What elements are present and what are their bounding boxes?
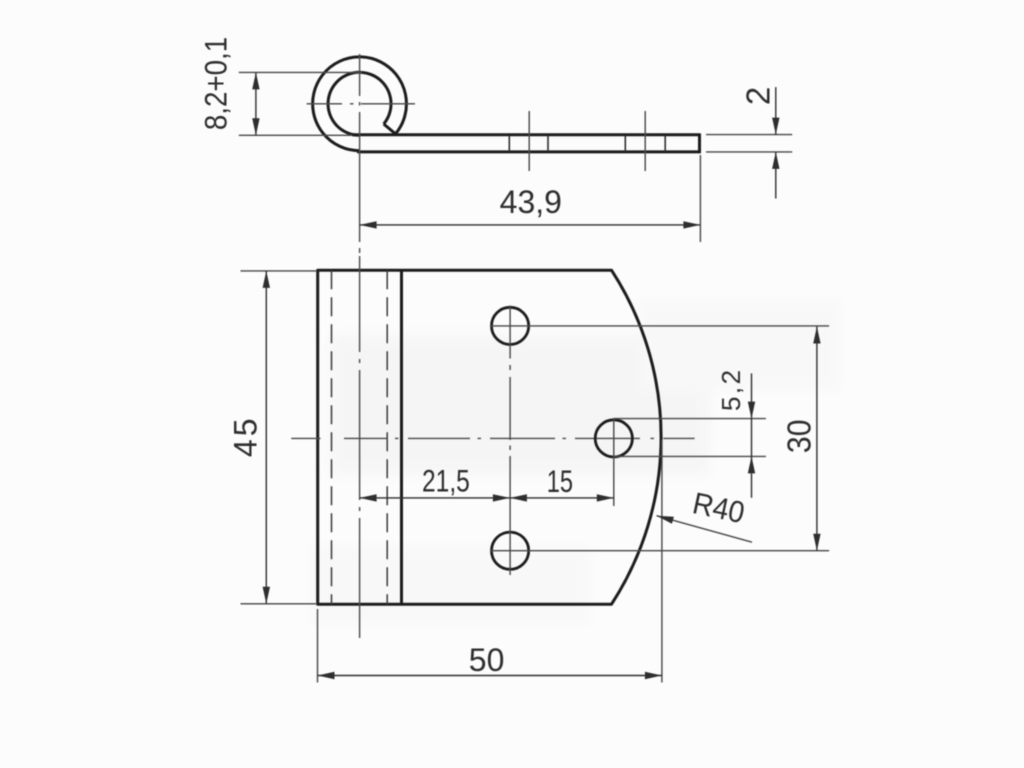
- dim 45 top extension: [241, 270, 317, 272]
- dim 5,2 middle segment: [751, 419, 753, 457]
- curl outer arc: [313, 57, 407, 151]
- plan vertical centerline: [359, 256, 361, 638]
- dim 50 right extension: [661, 440, 663, 683]
- svg-text:45: 45: [228, 416, 264, 458]
- dim 45 dimension line: [265, 271, 267, 604]
- dim 30 arrow up: [813, 327, 820, 344]
- top hole horizontal centerline / 30 extension: [490, 325, 829, 327]
- dim 21,5 arrow right: [493, 494, 510, 501]
- dim 2 upper arrow (down): [772, 118, 779, 135]
- svg-text:21,5: 21,5: [422, 463, 470, 499]
- dim 50 arrow right: [645, 672, 662, 679]
- dim 50 dimension line: [318, 675, 662, 677]
- dim 43,9 right extension line: [699, 155, 701, 242]
- curl vertical centerline: [359, 54, 361, 253]
- plate top edge (side view): [352, 133, 700, 136]
- hole centerline tick 2 (side view): [644, 111, 646, 171]
- dim 2 lower stem: [775, 152, 777, 199]
- svg-text:8,2+0,1: 8,2+0,1: [199, 37, 234, 130]
- dim 8,2+0,1 arrow up: [252, 72, 259, 89]
- curl horizontal centerline: [307, 103, 415, 105]
- plate bottom edge (side view): [357, 150, 700, 153]
- hole edge mark (side view, hole2 left): [624, 136, 626, 152]
- dim 5,2 lower stem: [751, 456, 753, 497]
- dim 8,2+0,1 bottom extension line: [239, 134, 352, 136]
- dim 5,2 upper arrow (down): [748, 402, 755, 419]
- svg-text:2: 2: [739, 87, 776, 105]
- dim 2 upper stem: [775, 87, 777, 135]
- dim 5,2 top extension: [614, 418, 766, 420]
- curl band hidden line right (dashed): [386, 270, 388, 604]
- dim 43,9 dimension line: [360, 224, 701, 226]
- R40 leader line: [657, 516, 753, 543]
- dim 50 left extension: [317, 609, 319, 683]
- svg-text:30: 30: [780, 420, 818, 454]
- svg-text:5,2: 5,2: [716, 367, 746, 411]
- dim 8,2+0,1 dimension line: [255, 72, 257, 135]
- dim 8,2+0,1 arrow down: [252, 118, 259, 135]
- hole centerline tick 1 (side view): [528, 111, 530, 171]
- faint scan blotches: [310, 300, 840, 625]
- dim 45 arrow up: [263, 271, 270, 288]
- dim 8,2+0,1 top extension line: [239, 71, 362, 73]
- dim 45 arrow down: [263, 587, 270, 604]
- R40 leader arrowhead: [657, 516, 674, 524]
- svg-text:50: 50: [469, 642, 505, 678]
- dim 5,2 bottom extension: [614, 455, 766, 457]
- curl band hidden line left (dashed): [331, 270, 333, 604]
- holes vertical centerline: [509, 306, 511, 576]
- dim 50 arrow left: [318, 672, 335, 679]
- dim 2 lower arrow (up): [772, 152, 779, 169]
- bottom hole horizontal centerline / 30 extension: [490, 550, 829, 552]
- dim 15 arrow left: [510, 494, 527, 501]
- dim 43,9 arrow right: [683, 221, 700, 228]
- dim 43,9 arrow left: [360, 221, 377, 228]
- curl band solid edge: [400, 270, 403, 604]
- svg-text:43,9: 43,9: [500, 184, 562, 220]
- hole edge mark (side view, hole1 left): [508, 136, 510, 152]
- dim 2 bottom extension line: [706, 151, 792, 153]
- plate outline with R40 arc: [318, 270, 661, 604]
- hole right: [595, 420, 632, 457]
- hole top: [492, 307, 529, 344]
- hole edge mark (side view, hole2 right): [664, 136, 666, 152]
- dim 30 dimension line: [816, 327, 818, 551]
- dim 45 bottom extension: [241, 603, 317, 605]
- plan horizontal centerline: [291, 437, 694, 439]
- hole edge mark (side view, hole1 right): [547, 136, 549, 152]
- dim 5,2 lower arrow (up): [748, 456, 755, 473]
- dim 15 arrow right: [597, 494, 614, 501]
- plate right end edge: [698, 133, 701, 153]
- dim 21,5 arrow left: [360, 494, 377, 501]
- dim 21,5 / 15 dimension line: [360, 497, 614, 499]
- dim 5,2 upper stem: [751, 373, 753, 418]
- right hole vertical centerline / 15 extension: [613, 418, 615, 506]
- hole bottom: [492, 532, 529, 569]
- svg-text:15: 15: [547, 464, 573, 499]
- curl inner arc: [328, 72, 391, 135]
- dim 2 top extension line: [706, 134, 792, 136]
- dim 30 arrow down: [813, 534, 820, 551]
- curl end face: [384, 124, 396, 134]
